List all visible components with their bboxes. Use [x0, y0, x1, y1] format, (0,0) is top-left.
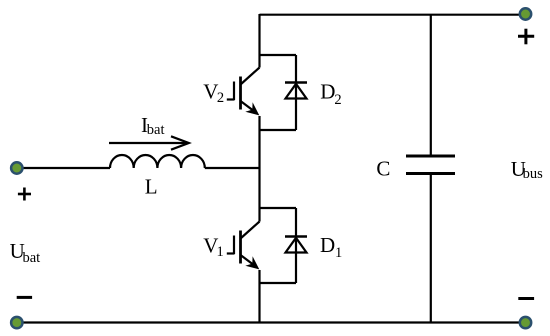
label Ibat	[141, 113, 165, 138]
diode D2	[285, 83, 307, 99]
svg-text:1: 1	[335, 245, 342, 261]
wire D2 branch vertical	[295, 55, 297, 130]
svg-text:bus: bus	[523, 166, 544, 182]
wire V2 D2 top link	[260, 54, 297, 56]
wire top rail to V2 collector	[258, 14, 260, 68]
label D1	[320, 233, 342, 261]
svg-text:D: D	[320, 79, 335, 103]
svg-text:L: L	[145, 175, 158, 199]
minus sign bus	[518, 297, 534, 300]
wire V2 emitter to V1 collector	[258, 116, 260, 222]
wire V2 D2 bottom link	[260, 129, 297, 131]
svg-text:bat: bat	[147, 122, 165, 138]
label V1	[203, 233, 223, 260]
terminal bus negative	[520, 317, 531, 328]
plus sign bus	[518, 29, 534, 45]
plus sign battery	[18, 188, 31, 201]
wire top rail	[260, 14, 521, 16]
svg-text:D: D	[320, 233, 335, 257]
label V2	[203, 79, 224, 106]
diode D1	[285, 237, 307, 253]
terminal bus positive	[520, 8, 531, 19]
wire battery positive lead	[21, 167, 110, 169]
svg-text:2: 2	[217, 90, 224, 106]
label Ubus	[511, 157, 543, 182]
IGBT V1	[227, 222, 260, 270]
svg-text:1: 1	[217, 244, 224, 260]
wire D1 branch vertical	[295, 208, 297, 283]
label Ubat	[10, 239, 41, 266]
wire V1 emitter to bottom rail	[258, 270, 260, 323]
svg-text:bat: bat	[23, 250, 41, 266]
wire V1 D1 top link	[260, 207, 297, 209]
wire bottom rail	[22, 321, 520, 323]
svg-text:2: 2	[334, 92, 341, 108]
label D2	[320, 79, 341, 108]
IGBT V2	[227, 68, 260, 116]
minus sign battery	[17, 296, 32, 299]
inductor L	[110, 155, 205, 168]
terminal battery negative	[11, 317, 22, 328]
terminal battery positive	[11, 162, 22, 173]
current arrow Ibat	[109, 136, 189, 149]
capacitor C	[406, 15, 455, 323]
svg-text:C: C	[376, 156, 390, 180]
wire inductor to midpoint node	[205, 167, 260, 169]
wire V1 D1 bottom link	[260, 282, 297, 284]
